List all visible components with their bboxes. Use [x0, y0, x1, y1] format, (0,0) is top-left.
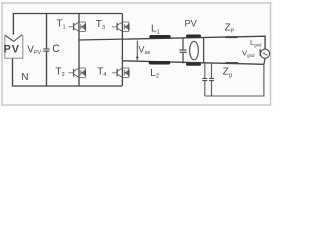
- grid right branch wire: [203, 38, 205, 64]
- svg-text:T3: T3: [96, 19, 105, 31]
- leg B wire (T3/T4): [121, 14, 123, 87]
- svg-text:L2: L2: [150, 68, 159, 80]
- top output wire: [79, 36, 265, 49]
- transistor T3: [112, 22, 129, 31]
- impedance Z_g: [226, 62, 238, 64]
- svg-text:L1: L1: [151, 24, 160, 36]
- parasitic capacitor branch 1: [204, 63, 206, 78]
- svg-text:PV: PV: [4, 44, 20, 56]
- transistor T1: [68, 22, 85, 31]
- svg-text:T4: T4: [97, 66, 107, 78]
- svg-text:T2: T2: [55, 66, 64, 78]
- arrow V_ae: [136, 41, 138, 60]
- transistor T2: [68, 68, 85, 77]
- leg A wire (T1/T2): [78, 14, 80, 87]
- series bar PV bottom: [188, 63, 200, 66]
- impedance Z_p: [226, 36, 237, 38]
- border frame: [2, 3, 271, 105]
- transistor T4: [112, 68, 129, 77]
- svg-text:N: N: [21, 72, 28, 83]
- svg-text:T1: T1: [56, 19, 65, 31]
- wire PV positive to top rail: [13, 14, 122, 35]
- ground bus wire: [205, 65, 264, 97]
- svg-text:Zg: Zg: [223, 67, 232, 79]
- svg-text:ZP: ZP: [225, 23, 235, 35]
- grid capacitor branch: [182, 38, 184, 50]
- svg-text:C: C: [52, 43, 60, 55]
- svg-text:Vgnd: Vgnd: [242, 49, 255, 59]
- grid source ellipse: [190, 41, 199, 59]
- inductor L1: [151, 35, 169, 39]
- source V_gnd: [260, 49, 269, 58]
- series bar PV top: [188, 35, 200, 38]
- wire PV negative / bottom rail: [13, 58, 123, 86]
- svg-text:VPV: VPV: [27, 44, 41, 56]
- parasitic capacitor branch 2: [211, 63, 213, 78]
- bottom output wire: [122, 61, 263, 65]
- capacitor C (DC link): [46, 14, 48, 49]
- svg-text:Lgnd: Lgnd: [250, 38, 262, 48]
- inductor L2: [151, 61, 169, 65]
- svg-text:Vae: Vae: [138, 44, 150, 57]
- svg-text:PV: PV: [185, 18, 198, 28]
- pv source PV: [5, 35, 23, 59]
